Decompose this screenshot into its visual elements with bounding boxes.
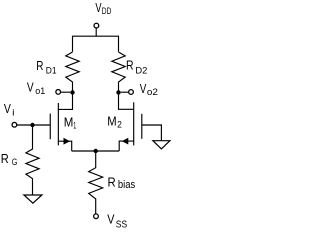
resistor Rbias (89, 151, 103, 214)
svg-text:R: R (1, 152, 9, 166)
node Vo1 junction dot (70, 90, 74, 94)
svg-text:R: R (36, 59, 43, 73)
node common source junction dot (94, 149, 98, 153)
wire top bus (73, 36, 119, 52)
wire M2 gate to ground (142, 125, 162, 140)
node Vi/RG junction dot (30, 123, 34, 127)
transistor M1 gate bar (49, 114, 51, 140)
terminal Vo1 (56, 90, 61, 95)
node Vo2 junction dot (116, 90, 120, 94)
transistor M2 drain wire (119, 92, 134, 109)
svg-text:D1: D1 (46, 66, 57, 77)
resistor RD1 (66, 52, 79, 92)
power VDD terminal (94, 23, 99, 28)
wire Vo1 (61, 91, 70, 93)
svg-text:DD: DD (102, 6, 112, 17)
wire Vi to M1 gate (17, 124, 50, 126)
svg-text:o2: o2 (147, 87, 158, 98)
svg-text:V: V (140, 82, 147, 96)
svg-text:G: G (12, 157, 18, 168)
ground left (24, 195, 42, 203)
svg-text:bias: bias (118, 179, 136, 191)
svg-text:V: V (107, 212, 115, 226)
transistor M1 source arrow (64, 138, 71, 145)
transistor M2 source arrow (122, 138, 129, 145)
svg-text:V: V (27, 80, 34, 94)
svg-text:D2: D2 (135, 66, 147, 77)
svg-text:o1: o1 (35, 86, 45, 97)
svg-text:i: i (12, 108, 14, 119)
wire Vo2 (121, 91, 129, 93)
transistor M1 drain wire (58, 92, 72, 109)
wire VDD stem (95, 28, 97, 36)
transistor M1 channel bar (57, 103, 59, 145)
transistor M2 gate bar (141, 114, 143, 139)
svg-text:SS: SS (116, 219, 127, 231)
svg-text:M: M (64, 116, 74, 130)
svg-text:2: 2 (117, 120, 122, 131)
svg-text:M: M (107, 114, 116, 128)
terminal VSS (94, 214, 99, 219)
wire common source (72, 150, 120, 152)
svg-text:R: R (126, 59, 134, 73)
svg-text:1: 1 (73, 120, 76, 131)
ground right (153, 141, 170, 149)
svg-text:R: R (108, 175, 116, 189)
resistor RG (26, 125, 39, 195)
svg-text:V: V (4, 102, 12, 116)
transistor M2 channel bar (133, 102, 135, 145)
transistor M2 source wire (119, 141, 134, 151)
resistor RD2 (112, 52, 125, 92)
terminal Vo2 (129, 90, 134, 95)
transistor M1 source wire (58, 141, 71, 151)
terminal Vi (12, 122, 17, 127)
